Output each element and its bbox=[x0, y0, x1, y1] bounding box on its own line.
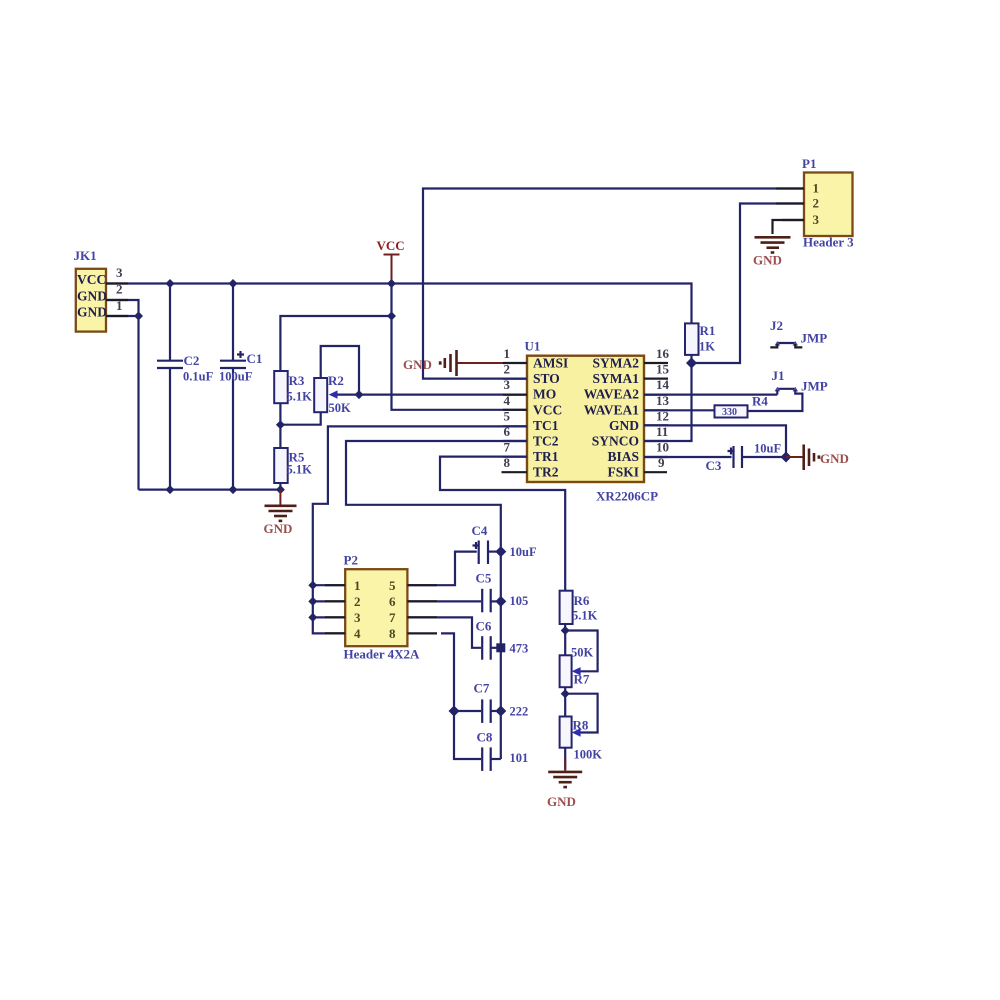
capacitor C2 bbox=[157, 284, 214, 490]
svg-text:R7: R7 bbox=[574, 672, 590, 687]
node P2 pin1 junction bbox=[308, 581, 317, 590]
U1 pin stubs right bbox=[644, 363, 668, 472]
svg-text:R2: R2 bbox=[328, 373, 344, 388]
svg-text:3: 3 bbox=[813, 212, 820, 227]
node R6/R7 junction bbox=[561, 626, 570, 635]
U1 right pin numbers 16-9 bbox=[656, 346, 670, 470]
svg-text:1: 1 bbox=[813, 181, 820, 196]
node VCC/R3 junction bbox=[387, 312, 396, 321]
svg-text:5.1K: 5.1K bbox=[572, 609, 598, 623]
svg-text:4: 4 bbox=[354, 626, 361, 641]
svg-text:1: 1 bbox=[504, 346, 511, 361]
potentiometer R2 bbox=[314, 346, 359, 415]
node P2 pin2 junction bbox=[308, 597, 317, 606]
capacitor C4 polarized bbox=[472, 523, 537, 564]
svg-text:R1: R1 bbox=[700, 323, 716, 338]
svg-text:7: 7 bbox=[389, 610, 396, 625]
capacitor C1 polarized bbox=[219, 284, 262, 490]
capacitor C5 bbox=[476, 571, 529, 613]
node C7 bus junction bbox=[495, 706, 506, 717]
wire R3 bottom to R2 bottom bbox=[280, 403, 320, 425]
resistor R5 bbox=[274, 425, 312, 490]
svg-text:3: 3 bbox=[116, 265, 123, 280]
svg-text:MO: MO bbox=[533, 387, 556, 402]
svg-text:WAVEA1: WAVEA1 bbox=[584, 402, 640, 417]
wire P2 pin8 down to C7 left junction bbox=[441, 633, 481, 711]
U1 left pin numbers 1-8 bbox=[504, 346, 511, 470]
node C4 bus junction bbox=[495, 546, 506, 557]
svg-text:J2: J2 bbox=[770, 318, 783, 333]
svg-text:473: 473 bbox=[510, 642, 529, 656]
svg-text:R3: R3 bbox=[289, 373, 305, 388]
jumper J1 bbox=[772, 368, 828, 394]
wire R1 bottom to U1 pin11 SYNCO bbox=[644, 363, 692, 441]
wire P2 pin5 up to C4 left plate bbox=[407, 552, 476, 586]
wire U1 pin3 MO to R2 wiper bbox=[359, 394, 527, 396]
ground symbol below R8 bbox=[547, 758, 582, 809]
node R1 bottom junction bbox=[686, 358, 697, 369]
svg-text:BIAS: BIAS bbox=[607, 449, 639, 464]
svg-text:VCC: VCC bbox=[377, 238, 405, 253]
svg-text:1K: 1K bbox=[699, 340, 715, 354]
wire U1 pin12 GND down to C3 output junction bbox=[644, 425, 786, 457]
svg-text:Header 3: Header 3 bbox=[803, 235, 854, 250]
wire C7 left down to C8 left plate bbox=[454, 711, 481, 759]
node R5 bottom ground junction bbox=[276, 485, 285, 494]
resistor R1 bbox=[685, 323, 715, 363]
svg-text:SYMA2: SYMA2 bbox=[593, 356, 640, 371]
capacitor C7 bbox=[474, 681, 529, 723]
wire U1 pin5 TC1 down-left to P2 left column bbox=[313, 426, 527, 633]
svg-text:SYMA1: SYMA1 bbox=[593, 371, 640, 386]
svg-text:2: 2 bbox=[354, 594, 361, 609]
svg-text:JMP: JMP bbox=[801, 379, 828, 394]
pin stubs JK1 bbox=[106, 284, 128, 317]
svg-text:R8: R8 bbox=[573, 718, 589, 733]
jumper J2 bbox=[770, 318, 827, 347]
node C5 bus junction bbox=[495, 596, 506, 607]
node MO/R2 loop junction bbox=[355, 390, 364, 399]
svg-text:XR2206CP: XR2206CP bbox=[596, 489, 658, 504]
svg-text:GND: GND bbox=[403, 357, 432, 372]
svg-text:GND: GND bbox=[820, 451, 849, 466]
svg-text:FSKI: FSKI bbox=[607, 465, 639, 480]
svg-text:Header 4X2A: Header 4X2A bbox=[344, 647, 421, 662]
node R3/R5/R2 junction bbox=[276, 420, 285, 429]
ground symbol sideways right of C3 bbox=[786, 445, 849, 471]
wire bottom ground rail bbox=[139, 489, 281, 491]
node C2 bottom on ground rail bbox=[166, 485, 175, 494]
svg-text:GND: GND bbox=[753, 253, 782, 268]
svg-text:U1: U1 bbox=[525, 339, 541, 354]
potentiometer R7 bbox=[560, 631, 598, 694]
svg-text:R6: R6 bbox=[574, 593, 590, 608]
node C1 top on VCC rail bbox=[229, 279, 238, 288]
capacitor C3 polarized bbox=[644, 442, 786, 474]
svg-text:R4: R4 bbox=[752, 394, 768, 409]
svg-text:WAVEA2: WAVEA2 bbox=[584, 387, 640, 402]
wire J1 right pin hook to R4 right bbox=[748, 390, 803, 411]
svg-text:100uF: 100uF bbox=[219, 370, 253, 384]
svg-text:1: 1 bbox=[354, 578, 361, 593]
node C7 left junction bbox=[449, 706, 460, 717]
svg-text:TC1: TC1 bbox=[533, 418, 559, 433]
svg-text:TC2: TC2 bbox=[533, 434, 559, 449]
svg-text:C4: C4 bbox=[472, 523, 488, 538]
node C2 top on VCC rail bbox=[166, 279, 175, 288]
node R7/R8 junction bbox=[561, 689, 570, 698]
ground symbol below R5 bbox=[264, 490, 297, 536]
svg-text:SYNCO: SYNCO bbox=[592, 434, 639, 449]
svg-text:GND: GND bbox=[609, 418, 639, 433]
node P2 pin3 junction bbox=[308, 613, 317, 622]
wire P2 pin3 lead bbox=[313, 616, 345, 618]
resistor R6 bbox=[560, 591, 598, 631]
svg-text:100K: 100K bbox=[574, 748, 603, 762]
svg-text:3: 3 bbox=[354, 610, 361, 625]
svg-text:J1: J1 bbox=[772, 368, 785, 383]
svg-text:GND: GND bbox=[264, 521, 293, 536]
capacitor C8 bbox=[477, 730, 529, 771]
ground symbol sideways at U1 pin1 AMSI bbox=[403, 350, 503, 376]
wire U1 pin13 WAVEA1 to R4 left bbox=[644, 409, 715, 411]
svg-text:0.1uF: 0.1uF bbox=[183, 370, 214, 384]
node VCC rail junction bbox=[387, 279, 396, 288]
header P2 bbox=[344, 553, 421, 662]
node C6 bus junction bbox=[496, 643, 505, 652]
svg-text:C8: C8 bbox=[477, 730, 493, 745]
svg-text:50K: 50K bbox=[329, 401, 352, 415]
wire JK1 pin2 to left vertical bbox=[106, 300, 139, 490]
svg-text:P1: P1 bbox=[802, 156, 816, 171]
IC U1 XR2206CP bbox=[525, 339, 659, 504]
ground symbol below P1 pin3 bbox=[753, 237, 791, 267]
svg-text:VCC: VCC bbox=[77, 272, 106, 287]
svg-text:C5: C5 bbox=[476, 571, 492, 586]
wire P2 pin6 to C5 left plate bbox=[407, 600, 481, 602]
U1 pin stubs left bbox=[502, 363, 528, 472]
svg-text:VCC: VCC bbox=[533, 402, 562, 417]
wire P2 pin7 jog down to C6 left plate bbox=[407, 617, 481, 647]
svg-text:5: 5 bbox=[389, 578, 396, 593]
wire R3 top to VCC vertical bbox=[280, 316, 391, 371]
svg-text:50K: 50K bbox=[571, 646, 594, 660]
svg-text:C1: C1 bbox=[247, 351, 263, 366]
potentiometer R8 bbox=[560, 694, 603, 770]
svg-text:C7: C7 bbox=[474, 681, 490, 696]
svg-text:JK1: JK1 bbox=[74, 248, 97, 263]
header P1 bbox=[802, 156, 854, 250]
svg-text:TR2: TR2 bbox=[533, 465, 559, 480]
wire U1 pin2 STO up and over to P1 pin1 bbox=[423, 189, 804, 379]
svg-text:C2: C2 bbox=[184, 353, 200, 368]
connector JK1 bbox=[74, 248, 124, 332]
svg-text:2: 2 bbox=[813, 196, 820, 211]
wire JK1 pin1 to junction bbox=[106, 315, 139, 317]
svg-text:GND: GND bbox=[547, 794, 576, 809]
svg-text:222: 222 bbox=[510, 705, 529, 719]
wire P2 pin1 lead bbox=[313, 584, 345, 586]
svg-text:330: 330 bbox=[722, 407, 737, 418]
svg-text:16: 16 bbox=[656, 346, 670, 361]
svg-text:GND: GND bbox=[77, 305, 107, 320]
svg-text:101: 101 bbox=[510, 751, 529, 765]
svg-text:JMP: JMP bbox=[801, 331, 828, 346]
wire U1 pin7 TR1 down and right to R6 top bbox=[440, 457, 565, 591]
svg-text:5.1K: 5.1K bbox=[287, 390, 313, 404]
power VCC symbol bbox=[377, 238, 405, 284]
svg-text:10uF: 10uF bbox=[754, 442, 781, 456]
svg-text:AMSI: AMSI bbox=[533, 356, 568, 371]
pin stubs P1 bbox=[776, 189, 804, 221]
node C3/pin12 junction bbox=[781, 452, 792, 463]
capacitor C6 bbox=[476, 619, 529, 660]
resistor R3 bbox=[274, 371, 312, 404]
wire VCC top rail from JK1 pin3 to R1 top corner bbox=[106, 284, 692, 324]
svg-text:TR1: TR1 bbox=[533, 449, 559, 464]
wire U1 pin14 WAVEA2 to J1 left pin bbox=[644, 390, 777, 395]
node junction JK1 pin1/pin2 bbox=[134, 312, 143, 321]
svg-text:P2: P2 bbox=[344, 553, 358, 568]
svg-text:8: 8 bbox=[389, 626, 396, 641]
wire P1 pin2 down to R1 bottom bbox=[692, 204, 805, 364]
wire P1 pin3 to ground bbox=[773, 220, 805, 234]
wire U1 pin6 TC2 down to capacitor bus bbox=[346, 441, 527, 759]
resistor R4 bbox=[715, 394, 769, 419]
svg-text:STO: STO bbox=[533, 371, 560, 386]
svg-text:6: 6 bbox=[389, 594, 396, 609]
node C1 bottom on ground rail bbox=[229, 485, 238, 494]
svg-text:C6: C6 bbox=[476, 619, 492, 634]
wire P2 pin2 lead bbox=[313, 600, 345, 602]
svg-text:5.1K: 5.1K bbox=[287, 463, 313, 477]
wire VCC vertical to U1 pin4 bbox=[392, 284, 528, 410]
svg-text:GND: GND bbox=[77, 289, 107, 304]
pin stubs P2 bbox=[325, 585, 437, 633]
svg-text:C3: C3 bbox=[706, 458, 722, 473]
svg-text:10uF: 10uF bbox=[510, 545, 537, 559]
svg-text:105: 105 bbox=[510, 594, 529, 608]
